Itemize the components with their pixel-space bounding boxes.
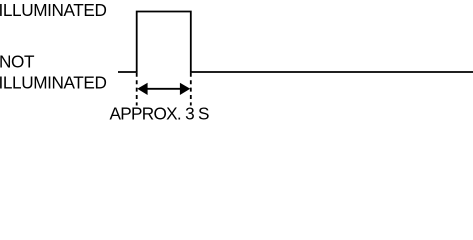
svg-text:NOT: NOT xyxy=(0,51,35,71)
wire: right dashed drop line xyxy=(190,73,192,106)
svg-text:ILLUMINATED: ILLUMINATED xyxy=(0,72,106,92)
wire: pulse waveform xyxy=(118,12,473,73)
svg-text:ILLUMINATED: ILLUMINATED xyxy=(0,0,106,20)
wire: left dashed drop line xyxy=(136,73,138,106)
arrow: duration double-headed arrow xyxy=(145,88,183,90)
svg-text:APPROX. 3 S: APPROX. 3 S xyxy=(110,103,210,123)
